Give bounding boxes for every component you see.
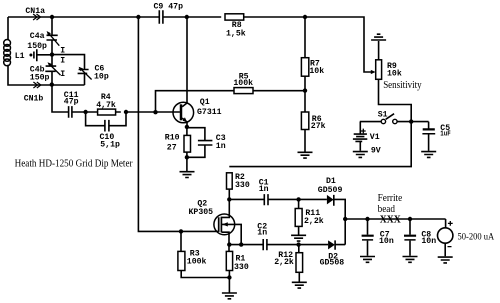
svg-text:10k: 10k bbox=[387, 69, 402, 79]
svg-text:1uF: 1uF bbox=[440, 131, 451, 139]
svg-text:I: I bbox=[60, 47, 65, 56]
svg-text:47p: 47p bbox=[64, 97, 79, 106]
svg-text:100k: 100k bbox=[187, 256, 207, 266]
svg-text:9V: 9V bbox=[371, 146, 381, 155]
svg-text:CN1b: CN1b bbox=[24, 93, 44, 103]
svg-text:Ferrite: Ferrite bbox=[378, 193, 403, 204]
svg-text:150p: 150p bbox=[30, 73, 50, 82]
svg-text:GD508: GD508 bbox=[320, 258, 345, 267]
svg-text:10n: 10n bbox=[379, 237, 394, 246]
svg-text:2,2k: 2,2k bbox=[274, 257, 294, 267]
svg-text:R10: R10 bbox=[165, 134, 180, 143]
svg-text:1n: 1n bbox=[216, 142, 226, 151]
svg-text:Heath HD-1250 Grid Dip Meter: Heath HD-1250 Grid Dip Meter bbox=[15, 158, 134, 169]
svg-text:Q1: Q1 bbox=[200, 98, 210, 107]
svg-text:1n: 1n bbox=[257, 229, 267, 238]
svg-text:KP305: KP305 bbox=[189, 208, 214, 217]
svg-text:330: 330 bbox=[234, 263, 249, 272]
svg-text:27k: 27k bbox=[311, 121, 326, 131]
svg-text:I: I bbox=[60, 57, 65, 66]
svg-text:100k: 100k bbox=[233, 78, 253, 88]
svg-text:1,5k: 1,5k bbox=[226, 29, 246, 39]
svg-text:CN1a: CN1a bbox=[25, 7, 45, 16]
svg-text:2,2k: 2,2k bbox=[304, 216, 324, 226]
svg-text:Sensitivity: Sensitivity bbox=[383, 80, 421, 91]
svg-text:27: 27 bbox=[167, 143, 177, 152]
svg-text:G7311: G7311 bbox=[197, 108, 222, 117]
svg-text:10k: 10k bbox=[309, 66, 324, 76]
svg-text:GD509: GD509 bbox=[318, 186, 343, 195]
svg-text:C9 47p: C9 47p bbox=[154, 3, 184, 12]
svg-text:50-200 uA: 50-200 uA bbox=[458, 232, 495, 242]
svg-text:10n: 10n bbox=[421, 237, 436, 246]
svg-text:S1: S1 bbox=[378, 111, 388, 120]
svg-text:C4a: C4a bbox=[30, 32, 45, 41]
svg-text:5,1p: 5,1p bbox=[100, 140, 120, 149]
svg-text:10p: 10p bbox=[94, 72, 109, 81]
svg-text:4,7k: 4,7k bbox=[96, 100, 116, 110]
svg-text:1n: 1n bbox=[259, 185, 269, 194]
svg-text:XXX: XXX bbox=[380, 215, 402, 226]
svg-text:150p: 150p bbox=[27, 42, 47, 51]
svg-text:I: I bbox=[60, 70, 65, 79]
svg-text:V1: V1 bbox=[370, 133, 380, 142]
svg-text:bead: bead bbox=[378, 204, 395, 215]
svg-text:L1: L1 bbox=[15, 52, 25, 61]
svg-text:330: 330 bbox=[235, 181, 250, 190]
